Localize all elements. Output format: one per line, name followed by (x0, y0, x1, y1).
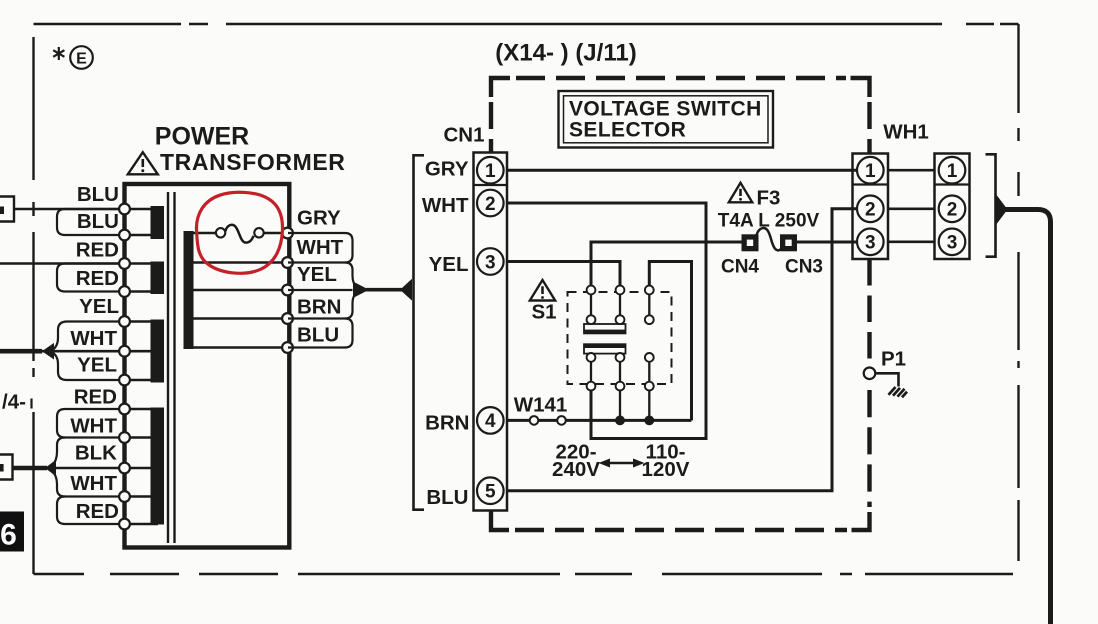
svg-text:BLU: BLU (297, 323, 339, 346)
wire switch loop to BRN (649, 262, 691, 421)
svg-text:YEL: YEL (297, 263, 337, 286)
svg-text:BRN: BRN (297, 295, 341, 318)
svg-text:RED: RED (76, 267, 119, 290)
secondary winding S (184, 231, 194, 349)
svg-text:YEL: YEL (429, 253, 469, 276)
secondary label tab BLU (288, 319, 353, 348)
connector J5 (left edge, cut off) (0, 197, 14, 222)
red marker circle (hand drawn) (196, 192, 282, 273)
fuse F3 element (757, 228, 783, 250)
svg-text:RED: RED (76, 500, 119, 523)
switch column interconnects (591, 294, 649, 420)
svg-text:2: 2 (485, 194, 496, 215)
connector WH1 column 2 (935, 154, 970, 260)
WH1 col2 pin 1 (939, 157, 966, 184)
WH1 col2 pin 2 (939, 196, 966, 223)
label tab WHT (slot 9) (57, 409, 121, 438)
secondary label tab YEL (345, 263, 358, 288)
power transformer T1 body (125, 184, 290, 548)
wires WH1 col1 to col2 (888, 170, 935, 242)
wire W-WHT/YEL primary 3 (bundle) (0, 350, 125, 353)
wire YEL CN1-3 to switch (507, 262, 620, 286)
CN1 pin 5 (477, 477, 504, 504)
switch S1 contacts (3x4 grid) (587, 286, 654, 391)
label tab RED (wire 2) (57, 264, 121, 292)
junction dots on BRN wire (615, 416, 625, 426)
WH1 col1 pin 1 (857, 157, 884, 184)
switch slider bar 1 (584, 324, 626, 333)
fuse F3 terminal CN3 (780, 234, 797, 251)
svg-text:1: 1 (865, 161, 876, 182)
svg-text:WHT: WHT (70, 415, 117, 438)
chassis ground symbol (889, 387, 908, 397)
svg-text:YEL: YEL (79, 295, 119, 318)
wire W-BLU primary 1 (14, 208, 125, 211)
warning triangle (transformer) (128, 152, 158, 174)
svg-text:RED: RED (76, 238, 119, 261)
WH1 output wedge (996, 194, 1008, 226)
svg-text:E: E (76, 50, 87, 67)
svg-text:5: 5 (485, 482, 496, 503)
svg-text:BLU: BLU (77, 183, 119, 206)
svg-text:S1: S1 (531, 300, 556, 323)
WH1 col2 pin 3 (939, 229, 966, 256)
secondary label tab WHT (288, 233, 358, 348)
svg-text:W141: W141 (514, 393, 568, 416)
switch S1 dashed outline (568, 292, 672, 384)
connector J6 (left edge, cut off) (0, 455, 13, 480)
svg-text:WHT: WHT (297, 236, 344, 259)
fuse F3 warning triangle (729, 183, 752, 203)
label tab WHT (wire 4 lower) (52, 470, 122, 497)
page border frame (dashed outline, decorative) (34, 24, 1019, 574)
wire bundle to CN1 (353, 282, 369, 299)
mains output wire (thick) (1005, 210, 1051, 624)
WH1 col1 pin 2 (857, 196, 884, 223)
P1 tap node on enclosure (864, 368, 876, 380)
wire W-RED primary 2 (0, 262, 125, 265)
CN1 pin 3 (477, 248, 504, 275)
svg-text:YEL: YEL (77, 353, 117, 376)
wire WHT CN1-2 to switch (507, 203, 706, 439)
CN1 pin 1 (477, 157, 504, 184)
svg-text:BLU: BLU (77, 210, 119, 233)
voltage select double arrow (607, 462, 636, 465)
svg-text:BLK: BLK (75, 442, 117, 465)
wire W-BLK/WHT primary 4 (bundle) (13, 467, 125, 470)
switch slider bar 2 (584, 344, 626, 353)
svg-text:120V: 120V (642, 458, 690, 481)
svg-text:2: 2 (865, 200, 876, 221)
svg-text:CN4: CN4 (721, 256, 759, 277)
svg-text:TRANSFORMER: TRANSFORMER (160, 149, 345, 175)
svg-text:6: 6 (0, 519, 17, 552)
svg-text:3: 3 (947, 233, 958, 254)
label tab RED (slot 12) (57, 497, 121, 525)
svg-text:3: 3 (485, 252, 496, 273)
bundle split wedge 4 (45, 460, 56, 476)
WH1 col1 pin 3 (857, 229, 884, 256)
label tab BLK (wire 4 upper) (52, 438, 66, 467)
WH1 bracket (986, 154, 996, 256)
svg-text:240V: 240V (552, 458, 600, 481)
connector J6 pin fragment (0, 464, 4, 472)
note *E (circled E) (53, 46, 93, 69)
svg-text:WH1: WH1 (883, 121, 929, 144)
svg-text:4: 4 (485, 411, 496, 432)
svg-text:/4-: /4- (2, 391, 26, 414)
label tab BLU (wire 1) (57, 209, 121, 235)
svg-text:P1: P1 (881, 347, 906, 370)
VOLTAGE SWITCH SELECTOR box (559, 91, 774, 148)
svg-text:F3: F3 (757, 186, 781, 209)
svg-text:(X14- ) (J/11): (X14- ) (J/11) (495, 39, 636, 66)
svg-text:3: 3 (865, 233, 876, 254)
primary terminal nodes (119, 204, 130, 530)
svg-text:VOLTAGE SWITCH: VOLTAGE SWITCH (569, 98, 762, 121)
wire GRY CN1-1 to WH1-1 (507, 169, 857, 172)
svg-text:1: 1 (485, 161, 496, 182)
fuse F3 terminal CN4 (742, 234, 759, 251)
connector CN1 bracket (414, 155, 425, 509)
svg-text:WHT: WHT (422, 194, 469, 217)
connector CN1 (474, 153, 508, 511)
svg-text:CN1: CN1 (443, 123, 484, 146)
warning triangle S1 (530, 280, 555, 301)
X14/J11 dashed enclosure (491, 78, 870, 530)
svg-text:T4A L 250V: T4A L 250V (718, 210, 820, 231)
wire BLU CN1-5 to WH1-2 (507, 209, 857, 491)
svg-text:POWER: POWER (155, 123, 249, 151)
CN1 pin 2 (477, 190, 504, 217)
page reference box 6 (0, 512, 24, 552)
svg-text:RED: RED (74, 385, 117, 408)
svg-text:WHT: WHT (70, 472, 117, 495)
svg-text:BLU: BLU (426, 486, 468, 509)
primary winding P3 (center tapped) (151, 320, 165, 383)
primary winding P2 (151, 262, 165, 295)
primary terminal stub wires (125, 209, 159, 524)
connector WH1 column 1 (853, 154, 889, 260)
thermal fuse (in transformer) (216, 225, 264, 243)
label tab WHT (wire 3 upper) (53, 322, 122, 351)
svg-text:GRY: GRY (297, 206, 341, 229)
label tab YEL (wire 3 lower) (53, 353, 122, 381)
secondary terminal nodes (282, 228, 293, 353)
W141 inline connector circles (530, 416, 539, 425)
svg-text:1: 1 (947, 161, 958, 182)
primary winding P1 (151, 206, 165, 239)
wire BRN CN1-4 / W141 (507, 419, 692, 422)
CN1 pin 4 (477, 407, 504, 434)
primary winding P4 (multi tapped) (151, 408, 165, 525)
svg-text:BRN: BRN (425, 411, 469, 434)
svg-text:GRY: GRY (425, 157, 469, 180)
secondary stub wires (193, 233, 288, 348)
secondary label tab BRN (345, 292, 358, 319)
wire P1 to chassis ground (875, 373, 898, 386)
wire fuse line to WH1-3 (591, 242, 857, 286)
svg-text:WHT: WHT (70, 327, 117, 350)
transformer core (168, 192, 175, 543)
bundle split wedge 3 (42, 343, 54, 360)
svg-text:SELECTOR: SELECTOR (569, 119, 686, 142)
svg-text:CN3: CN3 (785, 256, 823, 277)
svg-text:2: 2 (947, 200, 958, 221)
connector J5 pin fragment (0, 207, 4, 215)
